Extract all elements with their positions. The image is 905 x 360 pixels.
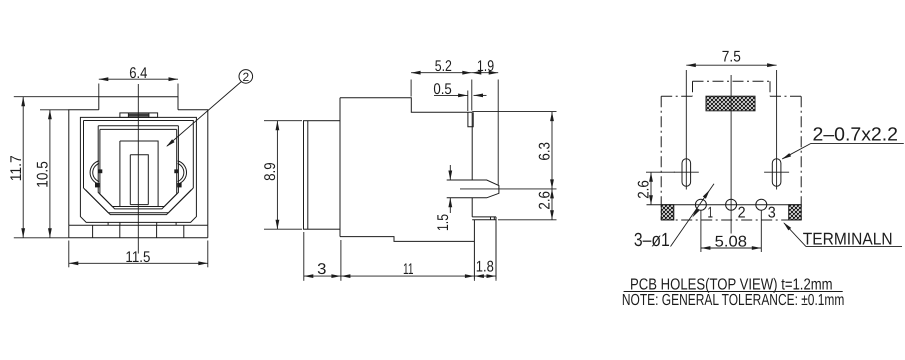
side view: pin center line xyxy=(460,188,557,190)
svg-text:11: 11 xyxy=(403,261,414,278)
front view: center slot xyxy=(130,155,148,205)
svg-text:11.7: 11.7 xyxy=(8,155,25,181)
side view: nose xyxy=(304,121,341,230)
side view: body bottom and left xyxy=(340,237,474,242)
svg-text:10.5: 10.5 xyxy=(34,161,51,188)
front view: left ear xyxy=(90,161,99,184)
front view: inner rect B xyxy=(120,141,158,207)
front view: bottom strip xyxy=(69,225,208,238)
svg-text:1: 1 xyxy=(708,205,714,222)
front view: ear pivot marks xyxy=(95,183,99,187)
front view: top tab xyxy=(120,113,158,118)
pcb center axis xyxy=(730,75,732,234)
front view: cup inner chamfer band xyxy=(84,188,194,213)
front view: cavity octagon outer xyxy=(98,126,178,207)
svg-text:2: 2 xyxy=(242,70,249,84)
svg-text:NOTE: GENERAL TOLERANCE: ±0.1m: NOTE: GENERAL TOLERANCE: ±0.1mm xyxy=(622,292,844,309)
pcb pad square right xyxy=(789,205,802,220)
front view: cavity octagon inner xyxy=(100,129,177,209)
front view: outer box xyxy=(69,110,208,225)
svg-text:TERMINALN: TERMINALN xyxy=(803,230,893,249)
pcb slot center lines xyxy=(685,70,687,190)
pcb hole 3 xyxy=(756,199,767,210)
pcb solid line through holes xyxy=(647,204,802,206)
front view: cup inner wall xyxy=(84,121,194,189)
svg-text:8.9: 8.9 xyxy=(262,162,279,181)
front view: feet stubs under cup xyxy=(107,222,109,225)
svg-text:1.5: 1.5 xyxy=(435,214,452,231)
front view: cup outer wall xyxy=(80,117,196,222)
front view: center line xyxy=(137,84,139,254)
svg-text:3: 3 xyxy=(317,261,326,278)
balloon label 2 xyxy=(239,70,253,84)
pcb outline dash-dot xyxy=(693,80,771,82)
pcb hole 2 xyxy=(726,199,737,210)
svg-text:7.5: 7.5 xyxy=(722,49,741,66)
pcb hole 1 xyxy=(695,199,706,210)
pcb slot left xyxy=(682,159,691,187)
svg-text:6.3: 6.3 xyxy=(537,142,554,161)
pcb bottom dash-dot line xyxy=(661,219,801,221)
pcb pad square left xyxy=(661,205,674,220)
side view: terminal pin xyxy=(447,180,499,198)
side view: body outline xyxy=(340,98,472,113)
svg-text:2–0.7x2.2: 2–0.7x2.2 xyxy=(813,125,898,146)
front view: top step xyxy=(99,97,178,110)
svg-text:3: 3 xyxy=(768,205,776,222)
side view: leg xyxy=(473,220,475,280)
front view: right ear xyxy=(178,161,187,184)
pcb slot right xyxy=(772,159,781,187)
svg-text:1.8: 1.8 xyxy=(476,259,494,276)
svg-text:3–ø1: 3–ø1 xyxy=(634,230,670,251)
pcb hatch rectangle xyxy=(706,96,755,111)
side view: foot xyxy=(472,217,496,220)
side view: 0.5 slot xyxy=(468,112,473,127)
svg-text:2: 2 xyxy=(738,205,746,222)
svg-text:2.6: 2.6 xyxy=(537,191,554,210)
